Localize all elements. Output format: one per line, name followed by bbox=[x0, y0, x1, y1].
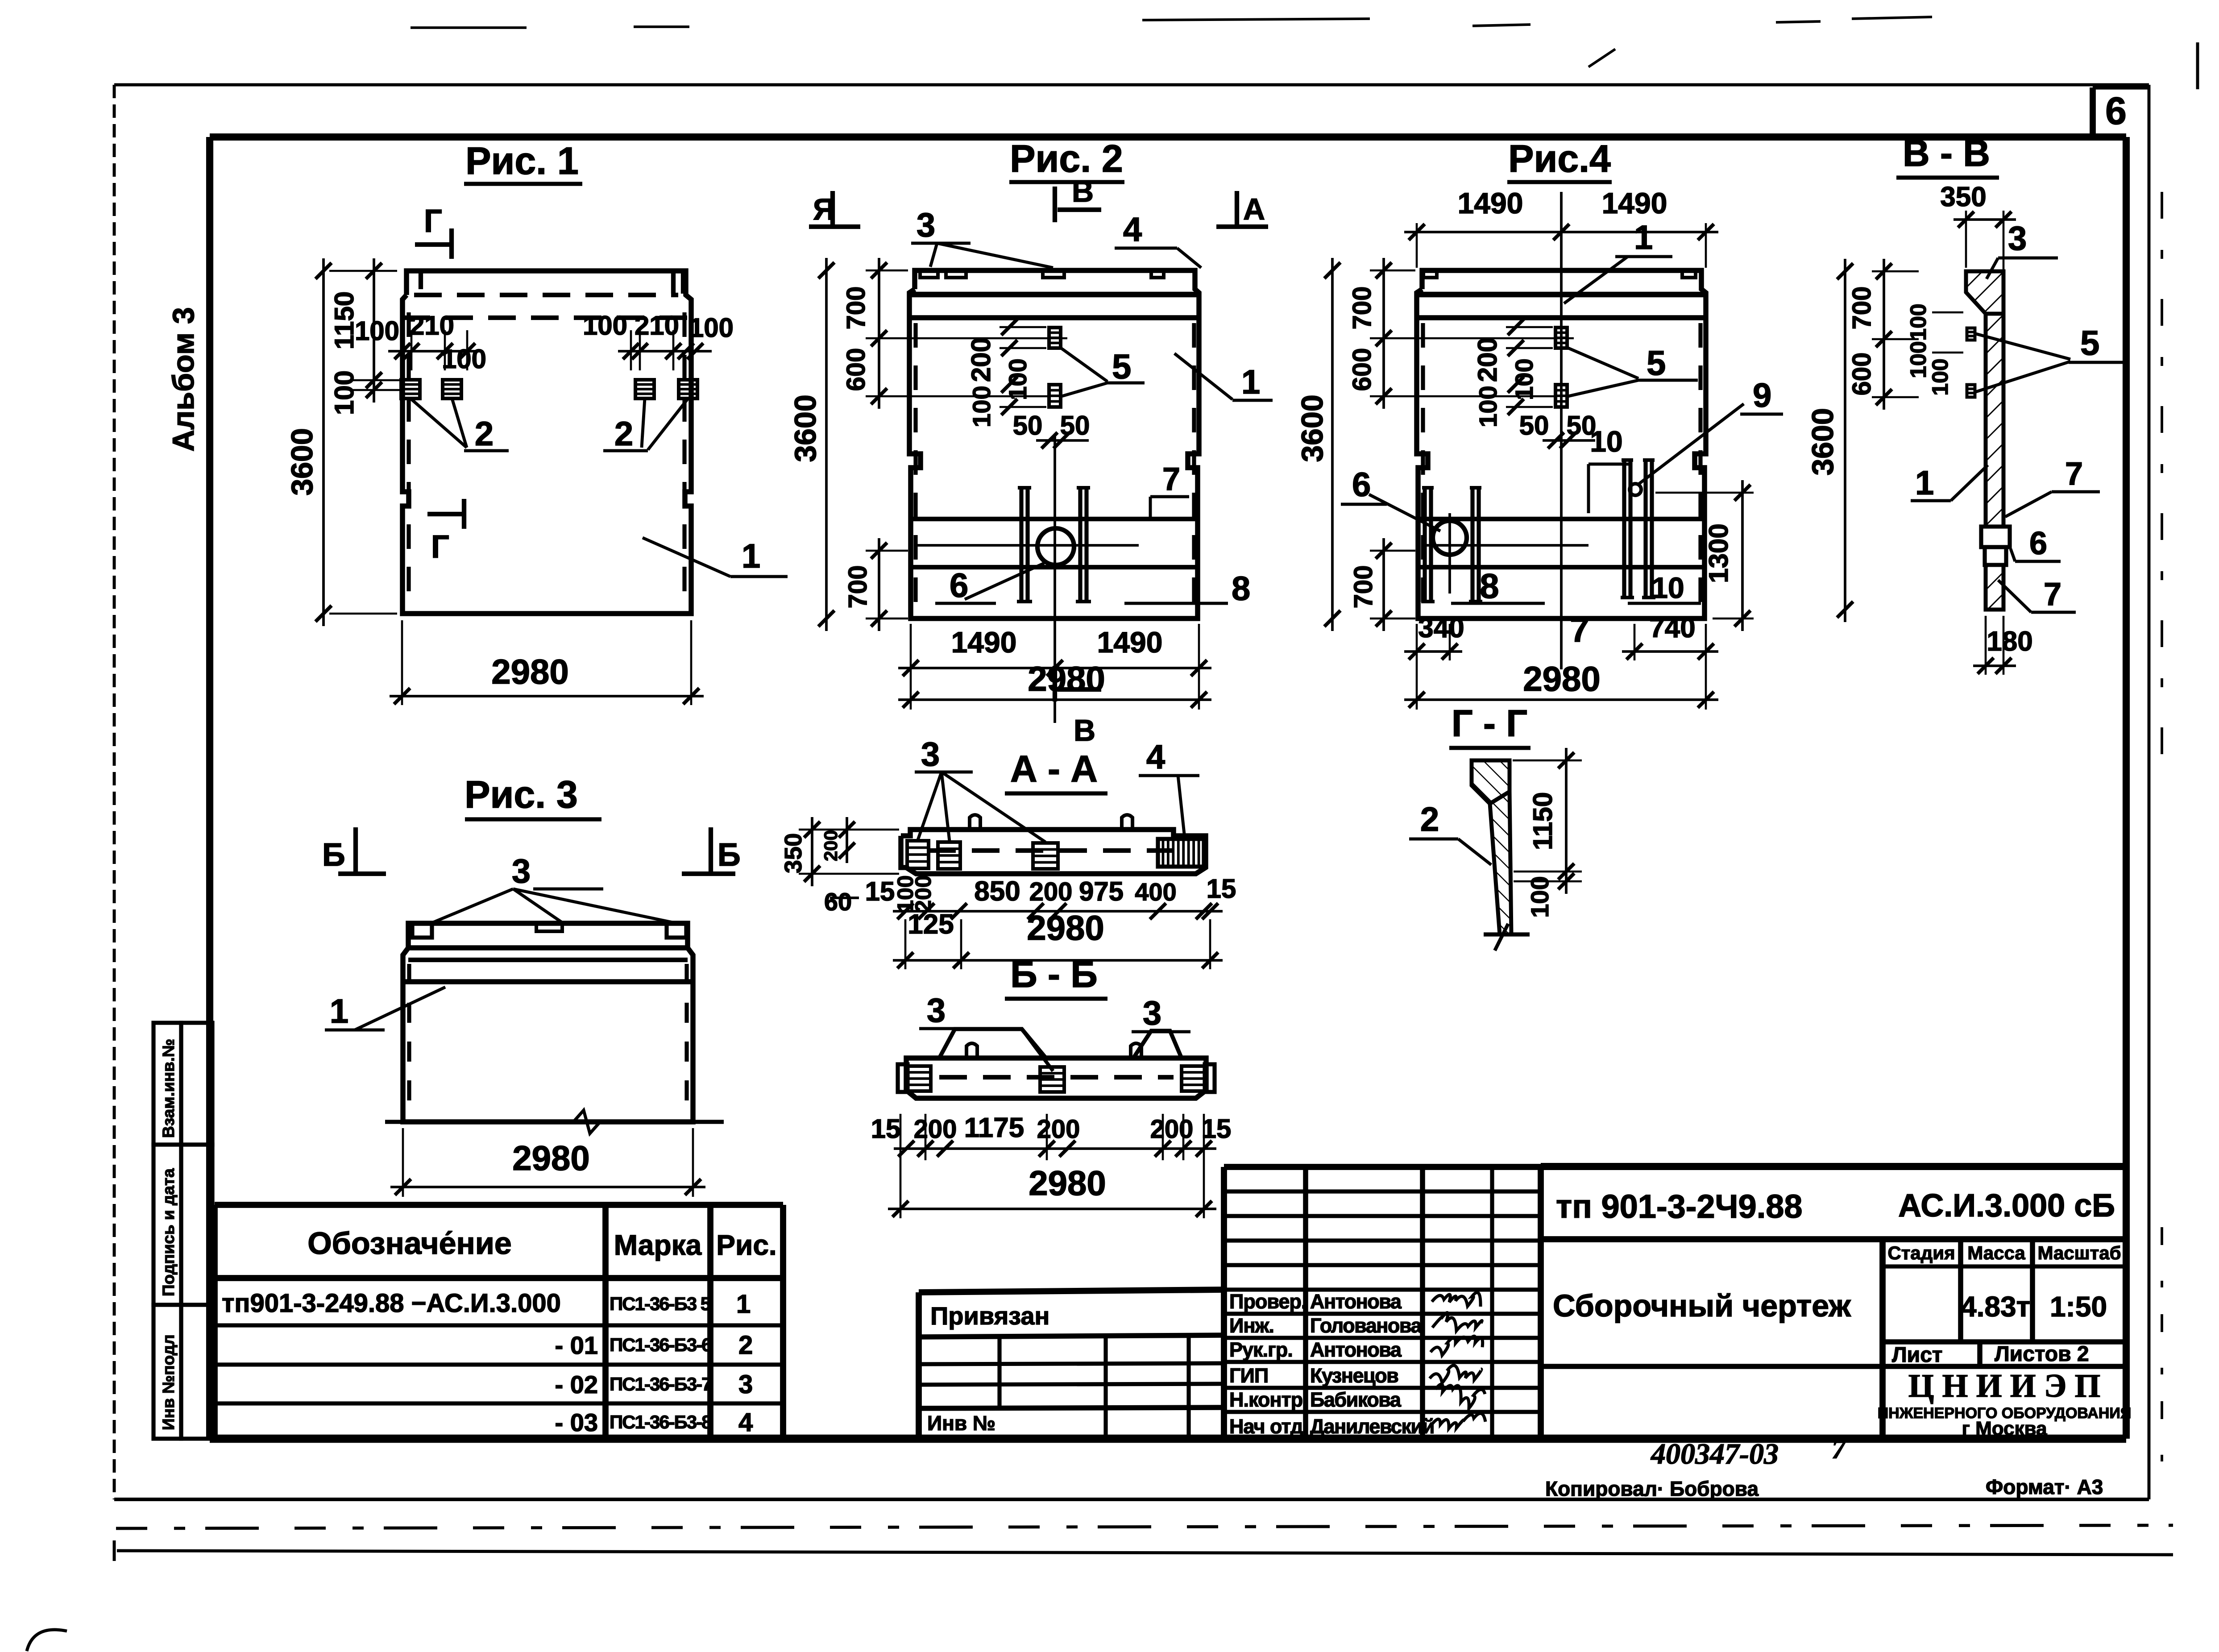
fig2 lower shelf lines bbox=[909, 517, 1199, 521]
svg-text:Копировал· Боброва: Копировал· Боброва bbox=[1545, 1477, 1759, 1500]
svg-text:6: 6 bbox=[1352, 466, 1371, 504]
svg-text:1490: 1490 bbox=[1458, 187, 1523, 220]
svg-text:3: 3 bbox=[921, 735, 940, 773]
sectionBB leader item1 bbox=[1911, 499, 1951, 502]
fig2 section mark A left bbox=[830, 191, 835, 227]
svg-text:1: 1 bbox=[742, 537, 760, 575]
sectionAA dashed center line bbox=[928, 848, 1178, 853]
sectionBB wall top block bbox=[1966, 271, 2003, 314]
svg-text:100: 100 bbox=[1526, 876, 1554, 917]
scan noise top edge bbox=[411, 26, 527, 29]
fig2 section mark B top bbox=[1053, 187, 1057, 222]
svg-text:180: 180 bbox=[1987, 626, 2032, 657]
svg-text:975: 975 bbox=[1079, 876, 1124, 906]
fig4 dashed edge left bbox=[1421, 323, 1425, 613]
svg-text:50: 50 bbox=[1519, 411, 1549, 440]
svg-text:1490: 1490 bbox=[1602, 187, 1667, 220]
svg-text:Подпись и дата: Подпись и дата bbox=[159, 1168, 178, 1296]
sectionBB2 end plates bbox=[898, 1064, 908, 1092]
fig2 dim 3600 bbox=[825, 258, 828, 631]
svg-text:Обозначе́ние: Обозначе́ние bbox=[307, 1226, 512, 1261]
sectionBB2 anchor blocks bbox=[908, 1066, 931, 1091]
fig4 lower shelf lines bbox=[1417, 517, 1706, 521]
svg-text:210: 210 bbox=[635, 311, 679, 340]
fig4 dim 1300 bbox=[1741, 480, 1744, 631]
svg-text:Сборочный чертеж: Сборочный чертеж bbox=[1553, 1288, 1851, 1323]
svg-text:Масштаб: Масштаб bbox=[2037, 1242, 2121, 1263]
svg-text:Стадия: Стадия bbox=[1887, 1242, 1955, 1263]
svg-text:2: 2 bbox=[475, 415, 494, 453]
fig2 collar recesses bbox=[920, 270, 938, 278]
scan noise bottom edge bbox=[116, 1525, 2173, 1528]
svg-text:50: 50 bbox=[1013, 411, 1043, 440]
fig4 bottom dim 340 bbox=[1404, 650, 1462, 653]
sectionAA lifting tabs bbox=[970, 815, 980, 830]
svg-text:100: 100 bbox=[442, 344, 486, 374]
svg-text:Б - Б: Б - Б bbox=[1010, 953, 1097, 995]
svg-text:1150: 1150 bbox=[329, 291, 359, 349]
fig4 body top line bbox=[1417, 315, 1706, 320]
svg-text:8: 8 bbox=[1232, 570, 1250, 608]
svg-text:2980: 2980 bbox=[1029, 1163, 1106, 1203]
svg-text:7: 7 bbox=[1162, 461, 1180, 497]
svg-text:2980: 2980 bbox=[1028, 659, 1105, 698]
svg-text:Листов 2: Листов 2 bbox=[1995, 1342, 2089, 1366]
svg-text:10: 10 bbox=[1651, 571, 1684, 604]
svg-text:Инж.: Инж. bbox=[1229, 1314, 1274, 1337]
svg-text:Инв №подл: Инв №подл bbox=[159, 1334, 178, 1430]
svg-text:Г: Г bbox=[431, 529, 449, 565]
fig2 dashed edge left bbox=[913, 323, 917, 613]
svg-text:1490: 1490 bbox=[1097, 626, 1163, 659]
svg-text:3: 3 bbox=[917, 206, 935, 244]
sectionBB wall bottom bbox=[1986, 565, 2003, 610]
sheet number box 6 bbox=[2090, 87, 2096, 137]
sectionBB2 sling trapezoid left bbox=[939, 1029, 1046, 1058]
svg-text:15: 15 bbox=[1207, 874, 1236, 904]
fig2 bottom dim 2980 bbox=[898, 698, 1211, 701]
svg-text:4: 4 bbox=[738, 1408, 753, 1437]
svg-text:6: 6 bbox=[950, 567, 968, 605]
svg-text:Ц Н И И Э П: Ц Н И И Э П bbox=[1908, 1368, 2101, 1404]
svg-text:600: 600 bbox=[1847, 353, 1876, 396]
scan noise right margin bbox=[2161, 192, 2163, 759]
sectionBB small dims 100 bbox=[1932, 311, 1963, 314]
svg-text:Формат· А3: Формат· А3 bbox=[1986, 1475, 2103, 1498]
svg-text:3600: 3600 bbox=[1295, 394, 1329, 462]
svg-text:- 02: - 02 bbox=[555, 1370, 598, 1399]
sectionBB leader item7 top bbox=[2052, 490, 2100, 494]
svg-text:1: 1 bbox=[1915, 464, 1934, 502]
sheet inner frame bbox=[210, 133, 2126, 141]
fig4 channel bars left bbox=[1423, 488, 1427, 602]
svg-text:3600: 3600 bbox=[1806, 408, 1840, 475]
fig4 collar bottom line bbox=[1417, 292, 1706, 298]
svg-text:Рис. 2: Рис. 2 bbox=[1010, 137, 1123, 180]
svg-text:2980: 2980 bbox=[1027, 908, 1104, 947]
fig2 section mark A right bbox=[1235, 191, 1239, 227]
sectionAA long anchor item4 bbox=[1158, 839, 1204, 867]
fig1 dim 3600 bbox=[322, 258, 325, 626]
svg-text:3: 3 bbox=[512, 852, 531, 890]
svg-text:АС.И.3.000 сБ: АС.И.3.000 сБ bbox=[1898, 1188, 2115, 1224]
svg-text:200: 200 bbox=[820, 830, 841, 861]
svg-text:2: 2 bbox=[614, 415, 633, 453]
fig1 dashed body line bbox=[402, 315, 691, 320]
sectionGG dim 1150 100 bbox=[1565, 748, 1568, 894]
sectionBB dim 3600 bbox=[1844, 259, 1846, 622]
signature grid verticals bbox=[1303, 1167, 1308, 1439]
svg-text:Н.контр: Н.контр bbox=[1229, 1388, 1302, 1411]
svg-text:Марка: Марка bbox=[614, 1229, 702, 1261]
svg-text:100: 100 bbox=[583, 311, 627, 340]
fig4 bottom dim 2980 bbox=[1404, 698, 1718, 701]
svg-text:ПС1-36-Б3-7: ПС1-36-Б3-7 bbox=[610, 1374, 711, 1395]
svg-text:400347-03: 400347-03 bbox=[1650, 1438, 1779, 1470]
svg-text:100: 100 bbox=[1906, 303, 1931, 340]
fig4 leader item6 bbox=[1369, 494, 1440, 531]
fig1 section mark G bottom bbox=[427, 512, 464, 516]
svg-text:1: 1 bbox=[1634, 219, 1653, 257]
svg-text:100: 100 bbox=[1928, 358, 1953, 395]
fig3 body outline bbox=[403, 948, 693, 1122]
fig2 bottom dims 1490 bbox=[898, 667, 1211, 669]
svg-text:тп 901-3-2Ч9.88: тп 901-3-2Ч9.88 bbox=[1556, 1188, 1803, 1225]
fig1 collar tabs bbox=[419, 271, 423, 289]
left margin strip boxes bbox=[153, 1023, 181, 1145]
fig3 section mark B right bbox=[709, 827, 713, 874]
fig3 body top line bbox=[408, 958, 688, 962]
svg-text:3600: 3600 bbox=[788, 394, 822, 462]
svg-text:Бабикова: Бабикова bbox=[1310, 1388, 1402, 1411]
svg-text:Альбом 3: Альбом 3 bbox=[166, 307, 200, 452]
svg-text:5: 5 bbox=[1112, 347, 1131, 386]
svg-text:700: 700 bbox=[1349, 565, 1378, 609]
svg-text:4.83т: 4.83т bbox=[1961, 1291, 2030, 1323]
svg-text:200: 200 bbox=[1037, 1115, 1080, 1144]
svg-text:г Москва: г Москва bbox=[1962, 1418, 2047, 1440]
svg-text:1:50: 1:50 bbox=[2050, 1291, 2107, 1323]
svg-text:Г: Г bbox=[424, 203, 442, 239]
fig4 center chain extension lines bbox=[1419, 337, 1574, 340]
fig4 channel bars right item10 bbox=[1622, 460, 1626, 598]
svg-text:7: 7 bbox=[2044, 577, 2061, 612]
svg-text:- 03: - 03 bbox=[555, 1408, 598, 1436]
svg-text:3600: 3600 bbox=[285, 428, 319, 495]
svg-text:В: В bbox=[1074, 714, 1095, 747]
fig3 collar bbox=[408, 923, 688, 948]
fig4 invert line bbox=[1423, 544, 1589, 547]
svg-text:4: 4 bbox=[1146, 738, 1165, 776]
svg-text:210: 210 bbox=[410, 311, 454, 340]
fig1 top dim chain right bbox=[618, 350, 712, 353]
svg-text:100: 100 bbox=[1906, 341, 1931, 378]
svg-text:200: 200 bbox=[966, 337, 996, 382]
fig4 dashed edge right bbox=[1698, 323, 1702, 613]
fig2 leader item6 bbox=[965, 563, 1044, 599]
sectionBB2 dashed center line bbox=[939, 1075, 1174, 1079]
sectionAA beam outline bbox=[901, 830, 1206, 874]
svg-text:1300: 1300 bbox=[1704, 523, 1734, 583]
fig2 invert line bbox=[916, 544, 1139, 547]
privyazan grid verticals bbox=[997, 1337, 1001, 1408]
svg-text:1175: 1175 bbox=[964, 1112, 1024, 1143]
svg-text:Рис. 1: Рис. 1 bbox=[465, 140, 579, 183]
fig1 top dim chain left bbox=[388, 350, 475, 353]
fig2 panel outline bbox=[909, 270, 1199, 618]
fig2 leader item8 bbox=[1124, 602, 1228, 605]
svg-text:700: 700 bbox=[1847, 286, 1876, 330]
svg-text:10: 10 bbox=[1590, 425, 1622, 458]
svg-text:8: 8 bbox=[1480, 566, 1499, 606]
svg-text:9: 9 bbox=[1753, 377, 1771, 415]
fig4 collar recesses bbox=[1423, 270, 1437, 278]
sectionBB2 beam outline bbox=[906, 1058, 1206, 1098]
fig4 leader item9 bbox=[1638, 404, 1744, 484]
svg-text:Инв №: Инв № bbox=[927, 1411, 995, 1435]
sectionBB2 dim 2980 bbox=[888, 1208, 1216, 1210]
svg-text:700: 700 bbox=[842, 286, 871, 330]
svg-text:7: 7 bbox=[1570, 610, 1589, 649]
privyazan table frame bbox=[919, 1290, 1224, 1292]
svg-text:2980: 2980 bbox=[491, 652, 569, 691]
fig2 dim chain left 700 600 700 bbox=[878, 258, 880, 409]
sectionAA dim 2980 bbox=[893, 959, 1223, 962]
svg-text:1: 1 bbox=[736, 1290, 751, 1319]
svg-text:Данилевский: Данилевский bbox=[1310, 1415, 1434, 1438]
svg-text:340: 340 bbox=[1418, 613, 1464, 643]
svg-text:6: 6 bbox=[2029, 526, 2047, 561]
svg-text:850: 850 bbox=[974, 876, 1020, 907]
fig4 leader item5 bbox=[1566, 347, 1638, 378]
sectionAA dim chain bbox=[893, 910, 1223, 913]
fig3 dim 2980 bbox=[390, 1186, 705, 1188]
svg-text:Антонова: Антонова bbox=[1310, 1290, 1402, 1313]
sectionGG column top block bbox=[1472, 760, 1510, 804]
svg-text:- 01: - 01 bbox=[555, 1331, 598, 1359]
svg-text:Рук.гр.: Рук.гр. bbox=[1229, 1338, 1293, 1361]
sectionBB leader item6 bbox=[2015, 560, 2061, 563]
fig1 dashed collar line bbox=[414, 293, 678, 297]
svg-text:100: 100 bbox=[1004, 358, 1032, 400]
fig4 top dims 1490 bbox=[1404, 231, 1718, 233]
fig2 center dim ticks bbox=[1000, 326, 1046, 328]
svg-text:100: 100 bbox=[355, 316, 399, 346]
svg-text:Кузнецов: Кузнецов bbox=[1310, 1364, 1398, 1387]
fig3 dashed edge left bbox=[407, 964, 411, 1118]
svg-text:2: 2 bbox=[738, 1331, 753, 1360]
svg-text:Голованова: Голованова bbox=[1310, 1314, 1422, 1337]
fig4 axis line bbox=[1560, 192, 1563, 652]
svg-text:125: 125 bbox=[908, 909, 954, 940]
svg-text:700: 700 bbox=[1348, 286, 1377, 330]
svg-text:1: 1 bbox=[330, 992, 348, 1030]
sectionBB leader item7 bottom bbox=[2031, 611, 2076, 614]
svg-text:2: 2 bbox=[1420, 801, 1439, 838]
title block frame bbox=[1541, 1163, 2126, 1170]
fig2 channel bars item7 bbox=[1019, 488, 1023, 602]
fig1 leader item1 bbox=[643, 538, 730, 577]
svg-text:Антонова: Антонова bbox=[1310, 1338, 1402, 1361]
svg-text:Б: Б bbox=[322, 837, 345, 873]
svg-text:5: 5 bbox=[2080, 323, 2099, 362]
svg-text:350: 350 bbox=[780, 833, 807, 873]
fig3 section mark B left bbox=[353, 827, 358, 874]
svg-text:ПС1-36-Б3-6: ПС1-36-Б3-6 bbox=[610, 1334, 711, 1355]
fig1 anchor squares item2 bbox=[401, 380, 420, 398]
svg-text:600: 600 bbox=[842, 348, 871, 391]
svg-text:тп901-3-249.88 −АС.И.3.000: тп901-3-249.88 −АС.И.3.000 bbox=[222, 1289, 561, 1318]
fig4 panel outline bbox=[1417, 270, 1706, 618]
svg-text:В: В bbox=[1072, 174, 1094, 208]
svg-text:1490: 1490 bbox=[951, 626, 1017, 659]
fig1 dim 1150 and 100 bbox=[373, 258, 375, 403]
svg-text:3: 3 bbox=[1143, 994, 1161, 1032]
svg-text:100: 100 bbox=[1510, 358, 1538, 400]
svg-text:200: 200 bbox=[1150, 1115, 1194, 1144]
svg-text:100: 100 bbox=[689, 313, 734, 343]
signature grid frame bbox=[1224, 1164, 1541, 1170]
sectionBB2 lifting tabs bbox=[966, 1043, 977, 1058]
svg-text:100: 100 bbox=[967, 386, 995, 427]
fig4 dim chain left 700 600 700 bbox=[1382, 258, 1385, 409]
svg-text:ПС1-36-Б3-8: ПС1-36-Б3-8 bbox=[610, 1411, 712, 1432]
fig1 dashed edge left bbox=[406, 312, 411, 607]
svg-text:ГИП: ГИП bbox=[1229, 1364, 1268, 1387]
svg-text:Провер.: Провер. bbox=[1229, 1290, 1306, 1313]
svg-text:Рис. 3: Рис. 3 bbox=[465, 773, 578, 816]
svg-text:600: 600 bbox=[1348, 348, 1377, 391]
fig4 leader item1 bbox=[1564, 257, 1628, 303]
svg-text:Б: Б bbox=[718, 837, 741, 873]
svg-text:15: 15 bbox=[871, 1114, 901, 1144]
sectionBB wall stem bbox=[1986, 314, 2003, 527]
svg-text:В - В: В - В bbox=[1903, 132, 1990, 174]
svg-text:Рис.4: Рис.4 bbox=[1508, 137, 1611, 180]
fig4 label item10 bottom bbox=[1628, 602, 1701, 605]
svg-text:А: А bbox=[1243, 192, 1265, 226]
svg-text:6: 6 bbox=[2105, 90, 2127, 133]
svg-text:350: 350 bbox=[1940, 182, 1986, 212]
svg-text:Масса: Масса bbox=[1967, 1242, 2025, 1263]
svg-text:1: 1 bbox=[1241, 363, 1260, 401]
svg-text:1150: 1150 bbox=[1528, 792, 1558, 850]
fig2 dashed edge right bbox=[1192, 323, 1196, 613]
svg-text:Привязан: Привязан bbox=[930, 1302, 1049, 1330]
sectionBB2 sling trapezoid right bbox=[1133, 1031, 1182, 1058]
svg-text:Взам.инв.№: Взам.инв.№ bbox=[159, 1039, 178, 1138]
sectionBB dim chain 700 600 bbox=[1883, 259, 1885, 410]
drawing title cell bbox=[1541, 1364, 1883, 1369]
svg-text:700: 700 bbox=[843, 565, 872, 609]
sectionBB anchor marks bbox=[1967, 328, 1975, 340]
fig2 collar bottom line bbox=[909, 292, 1199, 298]
svg-text:15: 15 bbox=[865, 876, 895, 906]
fig2 opening circle item6 bbox=[1037, 528, 1074, 565]
svg-text:200: 200 bbox=[1029, 877, 1073, 906]
sectionGG ground tick bbox=[1484, 932, 1530, 936]
svg-text:3: 3 bbox=[2008, 220, 2027, 257]
fig1 leader item2 left bbox=[411, 398, 467, 448]
fig1 section mark G top bbox=[415, 242, 452, 247]
fig4 bottom dim 740 bbox=[1622, 650, 1718, 653]
svg-text:Я: Я bbox=[813, 192, 835, 226]
parts table frame bbox=[215, 1202, 783, 1208]
sectionAA left dims bbox=[811, 817, 813, 886]
sectionAA anchor squares item3 bbox=[907, 841, 929, 868]
sheet outer border bbox=[114, 83, 2149, 87]
fig2 center chain extension lines bbox=[911, 337, 1067, 340]
stage mass scale header bbox=[1883, 1264, 2126, 1268]
svg-text:100: 100 bbox=[1474, 386, 1502, 427]
fig2 section mark B bottom bbox=[1053, 666, 1057, 701]
fig2 center anchor squares item5 bbox=[1049, 328, 1061, 348]
list row bbox=[1883, 1339, 2126, 1345]
svg-text:Г - Г: Г - Г bbox=[1452, 702, 1527, 744]
fig4 pin item9 bbox=[1630, 484, 1641, 495]
fig3 dashed edge right bbox=[684, 964, 689, 1118]
svg-text:60: 60 bbox=[824, 888, 852, 916]
fig2 leader item5 bbox=[1060, 347, 1107, 382]
svg-text:3: 3 bbox=[738, 1370, 753, 1399]
svg-text:400: 400 bbox=[1135, 878, 1176, 906]
svg-text:4: 4 bbox=[1123, 211, 1142, 249]
fig4 label item8 bbox=[1451, 602, 1545, 605]
fig4 center anchor squares item5 bbox=[1555, 328, 1567, 348]
svg-text:100: 100 bbox=[329, 370, 359, 415]
fig3 ground line with break bbox=[385, 1120, 573, 1124]
svg-text:5: 5 bbox=[1647, 343, 1666, 382]
sectionBB channel item6 bbox=[1981, 527, 2010, 547]
sectionGG column stem bbox=[1490, 792, 1511, 934]
fig1 panel outline bbox=[402, 271, 691, 614]
svg-text:200: 200 bbox=[1472, 337, 1502, 382]
fig2 axis line bbox=[1054, 436, 1056, 723]
svg-text:Нач отд: Нач отд bbox=[1229, 1415, 1303, 1438]
svg-text:2980: 2980 bbox=[1523, 659, 1601, 698]
fig1 dim 2980 bbox=[390, 695, 704, 697]
svg-text:15: 15 bbox=[1202, 1114, 1232, 1144]
fig4 center dim ticks bbox=[1506, 326, 1553, 328]
sectionBB leader item5 bbox=[1976, 334, 2070, 359]
fig2 leader item1 bbox=[1174, 353, 1232, 399]
svg-text:2980: 2980 bbox=[512, 1138, 590, 1178]
svg-text:3: 3 bbox=[927, 992, 946, 1029]
fig2 body top line bbox=[909, 315, 1199, 320]
svg-text:Лист: Лист bbox=[1892, 1343, 1942, 1367]
sectionBB2 dim chain bbox=[894, 1147, 1216, 1150]
svg-text:А - А: А - А bbox=[1010, 748, 1098, 790]
fig1 leader item2 right bbox=[642, 398, 645, 448]
fig1 dashed edge right bbox=[682, 312, 686, 607]
svg-text:200: 200 bbox=[914, 1115, 957, 1144]
fig4 dim 3600 bbox=[1331, 258, 1334, 631]
svg-text:7: 7 bbox=[1832, 1434, 1847, 1465]
svg-text:740: 740 bbox=[1649, 613, 1695, 643]
svg-text:Рис.: Рис. bbox=[716, 1229, 776, 1261]
svg-text:7: 7 bbox=[2065, 456, 2083, 492]
svg-text:ПС1-36-Б3 5: ПС1-36-Б3 5 bbox=[610, 1293, 711, 1314]
fig4 opening circle item6 bbox=[1433, 521, 1467, 555]
fig2 bracket item7 bbox=[1150, 495, 1189, 498]
